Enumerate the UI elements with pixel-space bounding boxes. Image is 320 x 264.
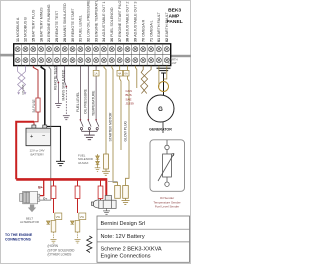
wire remote test (terminal 25) — [56, 66, 58, 79]
wire adjustable out 1 (terminal 34) — [104, 66, 106, 154]
svg-text:36 FUEL SOLENOID: 36 FUEL SOLENOID — [110, 7, 114, 42]
relay column 2 (stop solenoid) — [77, 180, 79, 186]
wire battery minus (terminal 16) — [41, 66, 45, 125]
sender symbol — [158, 140, 174, 186]
relay column 3 (other) — [100, 180, 102, 186]
current transformer — [159, 82, 169, 92]
wire engine running D+ (terminal 21) — [40, 66, 51, 201]
wire start pilot down — [120, 76, 121, 150]
ground starter motor — [103, 208, 110, 214]
gray feed line left — [0, 54, 14, 57]
frame border — [1, 1, 191, 264]
svg-text:STARTER MOTOR: STARTER MOTOR — [109, 112, 113, 142]
wire alternator B+ — [40, 179, 44, 195]
title BEK3 AMP PANEL — [166, 8, 182, 26]
svg-text:30 REMOTE START: 30 REMOTE START — [71, 8, 75, 42]
svg-text:39 ADJUSTABLE OUT 3: 39 ADJUSTABLE OUT 3 — [134, 2, 138, 42]
svg-text:37 ENGINE START PILOT: 37 ENGINE START PILOT — [118, 0, 122, 42]
twisted pair CAN bus wires 70 71 — [141, 66, 152, 94]
svg-text:11 MODBUS A: 11 MODBUS A — [16, 17, 20, 42]
ground battery minus — [56, 161, 65, 165]
svg-text:70 OMEGA R: 70 OMEGA R — [141, 19, 145, 42]
svg-text:(OTHER LOADS: (OTHER LOADS — [48, 253, 72, 257]
wire battery plus distribution — [16, 122, 34, 180]
wire gray link starter to pilot relay — [108, 181, 118, 183]
alternator ground arrow — [28, 205, 36, 213]
wire generator earth — [163, 73, 165, 95]
wire engine temperature input (terminal 33) — [95, 66, 97, 120]
svg-text:GLOW PLUG: GLOW PLUG — [123, 121, 127, 142]
svg-text:6A: 6A — [125, 72, 128, 76]
gray feed line right — [171, 55, 191, 57]
switch engine temperature — [95, 119, 99, 131]
svg-text:32 LOW OIL PRESSURE: 32 LOW OIL PRESSURE — [87, 0, 91, 42]
fuse 5A — [36, 98, 40, 112]
pilot relay box 2 — [123, 186, 129, 199]
switch fuel level sender — [80, 119, 84, 131]
svg-text:G: G — [158, 107, 163, 113]
svg-text:81 EARTH FAULT: 81 EARTH FAULT — [157, 11, 161, 42]
switch remote test — [57, 78, 59, 103]
wire earth fault CT terminal 81 — [158, 66, 160, 87]
svg-text:34 ADJUSTABLE OUT 1: 34 ADJUSTABLE OUT 1 — [102, 2, 106, 42]
svg-text:REMOTE TEST: REMOTE TEST — [54, 66, 58, 90]
svg-text:TO THE ENGINE: TO THE ENGINE — [5, 233, 33, 237]
svg-text:B+: B+ — [38, 186, 42, 190]
svg-text:71 OMEGA L: 71 OMEGA L — [149, 20, 153, 42]
terminal labels (rotated) — [16, 0, 169, 42]
senders common bus — [82, 131, 98, 135]
svg-text:82 EARTH FAULT: 82 EARTH FAULT — [165, 11, 169, 42]
starter motor — [91, 196, 116, 209]
battery plus bus — [16, 178, 107, 181]
svg-text:ALTERNATOR: ALTERNATOR — [20, 220, 39, 224]
svg-text:−: − — [42, 133, 45, 139]
svg-text:Bernini Design Srl: Bernini Design Srl — [101, 221, 146, 227]
screws — [15, 47, 169, 63]
ground diode — [95, 168, 101, 172]
svg-text:OIL PRESSURE: OIL PRESSURE — [84, 88, 88, 114]
label HORN STOP SOLENOID OTHER — [48, 244, 76, 257]
relay column 1 (horn) — [53, 180, 55, 186]
svg-text:D+: D+ — [43, 196, 47, 200]
svg-text:+: + — [30, 134, 33, 140]
wire oil pressure input (terminal 32) — [87, 66, 89, 120]
svg-text:RS 485: RS 485 — [21, 84, 25, 94]
svg-text:FUEL LEVEL: FUEL LEVEL — [76, 92, 80, 112]
wire earth fault CT terminal 82 — [164, 66, 167, 79]
fuse out 1 — [93, 70, 99, 76]
wire fuel level input (terminal 31) — [79, 66, 81, 120]
fuel solenoid coil — [104, 154, 109, 169]
fuse start pilot — [117, 70, 123, 76]
svg-text:Note: 12V Battery: Note: 12V Battery — [101, 234, 145, 240]
wire adjustable out 2 (terminal 38) — [127, 66, 129, 71]
svg-text:31 FUEL LEVEL: 31 FUEL LEVEL — [79, 15, 83, 42]
wire MODBUS B — [25, 66, 27, 72]
belt alternator — [20, 191, 40, 204]
sender box — [150, 140, 185, 192]
wire MODBUS A — [17, 66, 19, 72]
svg-text:VW: VW — [56, 215, 61, 219]
svg-text:12 MODBUS B: 12 MODBUS B — [24, 17, 28, 42]
svg-text:BATTERY: BATTERY — [31, 153, 45, 157]
starter motor supply — [105, 181, 107, 196]
stop solenoid load — [79, 213, 86, 220]
svg-text:Scheme 2 BEK3-XXKVA: Scheme 2 BEK3-XXKVA — [101, 247, 162, 253]
terminal strip — [14, 44, 171, 66]
switch mains simulated — [65, 82, 67, 115]
wire engine start pilot (terminal 37) — [119, 66, 121, 71]
wire out 2 down — [126, 76, 130, 186]
pilot relay box 1 — [115, 186, 121, 199]
svg-text:BEK3: BEK3 — [168, 8, 181, 14]
switch oil pressure — [88, 119, 92, 131]
wire generator to sender box — [162, 122, 164, 133]
wire fuse to battery plus — [34, 112, 38, 125]
svg-text:38 ADJUSTABLE OUT 2: 38 ADJUSTABLE OUT 2 — [126, 2, 130, 42]
svg-text:15 BATTERY PLUS: 15 BATTERY PLUS — [32, 9, 36, 42]
label CAN BUS SAE J1939 — [126, 89, 135, 106]
wire fuel solenoid output (terminal 36) — [112, 66, 118, 186]
svg-text:28 MAINS SIMULATED: 28 MAINS SIMULATED — [63, 3, 67, 42]
ground glow plug — [122, 198, 130, 204]
svg-text:VW: VW — [80, 215, 85, 219]
arrowheads RS485 — [17, 92, 20, 95]
svg-text:TEMPERATURE: TEMPERATURE — [92, 90, 96, 116]
svg-text:3A MAX: 3A MAX — [78, 161, 89, 165]
svg-text:AMP: AMP — [168, 13, 180, 19]
svg-text:GENERATOR: GENERATOR — [149, 128, 172, 132]
ground remote test — [55, 103, 62, 107]
svg-text:33 ENGINE TEMPERATURE: 33 ENGINE TEMPERATURE — [94, 0, 98, 42]
twisted pair RS485 — [18, 72, 26, 92]
wire mains simulated (terminal 28) — [64, 66, 66, 82]
label sender box — [153, 196, 180, 209]
svg-text:Fuel Level Sender: Fuel Level Sender — [155, 205, 179, 209]
svg-text:4A: 4A — [118, 72, 121, 76]
horn load — [55, 213, 62, 220]
fuse out 2 — [123, 70, 129, 76]
battery 12V/24V — [26, 125, 51, 146]
ground fuel solenoid — [102, 169, 110, 175]
svg-text:J1939: J1939 — [126, 102, 135, 106]
wire battery plus (terminal 15) — [33, 66, 38, 98]
generator G — [147, 95, 174, 122]
wire adjustable out 3 (terminal 39) — [135, 66, 136, 88]
wire battery minus to ground — [45, 126, 61, 161]
svg-text:Engine Connections: Engine Connections — [101, 254, 151, 260]
svg-text:FAULT: FAULT — [169, 61, 178, 65]
ground senders — [84, 135, 95, 140]
ground earth fault — [157, 68, 171, 73]
info box — [97, 216, 190, 262]
svg-text:MAINS SIMULATED: MAINS SIMULATED — [61, 69, 65, 100]
ground mains simulated — [63, 116, 70, 120]
svg-text:1A: 1A — [94, 72, 97, 76]
svg-text:25 REMOTE TEST: 25 REMOTE TEST — [55, 10, 59, 42]
flyback diode fuel solenoid — [96, 154, 100, 168]
svg-text:CONNECTIONS: CONNECTIONS — [5, 238, 32, 242]
other load coil — [87, 236, 92, 253]
svg-text:21 ENGINE RUNNING: 21 ENGINE RUNNING — [47, 4, 51, 42]
svg-text:16 BATTERY MINUS: 16 BATTERY MINUS — [39, 7, 43, 42]
svg-text:5A FUSE: 5A FUSE — [32, 99, 36, 112]
